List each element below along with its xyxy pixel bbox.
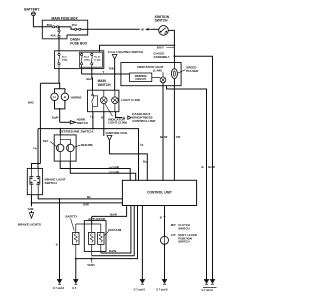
svg-text:SET: SET <box>43 139 49 143</box>
svg-text:H: H <box>53 95 55 99</box>
svg-text:(10A): (10A) <box>62 58 68 61</box>
svg-text:(10A): (10A) <box>84 58 90 61</box>
svg-text:LIGHT (3.0W): LIGHT (3.0W) <box>108 121 127 125</box>
svg-text:H: H <box>64 95 66 99</box>
svg-text:G 7 and 8: G 7 and 8 <box>53 287 65 290</box>
svg-text:Bu/R: Bu/R <box>87 77 94 81</box>
svg-text:SET/RESUME SWITCH: SET/RESUME SWITCH <box>60 129 94 133</box>
svg-text:45A: 45A <box>72 23 78 27</box>
svg-text:B: B <box>160 216 162 220</box>
svg-text:(7.5A): (7.5A) <box>94 58 100 61</box>
svg-text:SWITCH: SWITCH <box>77 121 88 125</box>
svg-text:Bu/W: Bu/W <box>160 135 168 139</box>
svg-text:SAFETY: SAFETY <box>65 215 78 219</box>
svg-text:No.4: No.4 <box>84 56 90 59</box>
svg-text:BU/Y: BU/Y <box>157 46 164 50</box>
svg-text:SWITCH: SWITCH <box>178 226 189 230</box>
svg-text:BRAKE LIGHTS: BRAKE LIGHTS <box>18 223 41 227</box>
svg-text:No.21: No.21 <box>94 57 101 59</box>
svg-text:G 5: G 5 <box>72 287 77 290</box>
svg-text:IGNITION COIL: IGNITION COIL <box>106 131 128 135</box>
svg-text:Br/W: Br/W <box>208 165 215 169</box>
svg-text:CIRCUIT: CIRCUIT <box>135 77 146 81</box>
svg-text:Y/R: Y/R <box>176 135 181 139</box>
svg-text:FUSE BOX: FUSE BOX <box>70 41 88 45</box>
svg-text:PULSER: PULSER <box>186 69 199 73</box>
svg-text:G/W: G/W <box>28 207 34 211</box>
svg-text:From LIGHTING SWITCH: From LIGHTING SWITCH <box>108 50 143 54</box>
svg-text:No.5: No.5 <box>62 57 68 59</box>
svg-text:G 7 and 8: G 7 and 8 <box>134 289 146 292</box>
svg-text:G/W: G/W <box>83 203 89 207</box>
svg-text:B: B <box>56 244 58 247</box>
svg-text:CONTROL UNIT: CONTROL UNIT <box>147 191 172 195</box>
svg-text:LIGHT (1.4W): LIGHT (1.4W) <box>121 98 140 102</box>
svg-text:B: B <box>123 116 125 120</box>
svg-text:Lg/B: Lg/B <box>113 170 119 174</box>
svg-text:CONTROL UNIT: CONTROL UNIT <box>132 119 155 123</box>
svg-text:HORNS: HORNS <box>71 95 82 99</box>
svg-text:SWITCH: SWITCH <box>155 19 168 23</box>
svg-text:SWITCH: SWITCH <box>98 83 111 87</box>
svg-text:Br/W: Br/W <box>110 212 117 216</box>
svg-text:Y: Y <box>102 70 104 74</box>
svg-text:Bu/R: Bu/R <box>52 116 59 120</box>
svg-text:Bu/W: Bu/W <box>109 249 117 253</box>
svg-text:M/T:: M/T: <box>171 223 177 227</box>
svg-text:80A: 80A <box>47 23 53 27</box>
svg-text:G 7 and 8: G 7 and 8 <box>156 289 168 292</box>
svg-text:R/B: R/B <box>109 66 114 70</box>
svg-text:Lg: Lg <box>33 146 37 150</box>
svg-text:(1.4W): (1.4W) <box>153 69 162 73</box>
svg-text:VENT: VENT <box>87 263 95 267</box>
svg-text:W: W <box>141 28 144 32</box>
svg-text:B: B <box>101 115 103 119</box>
svg-text:MAIN FUSE BOX: MAIN FUSE BOX <box>52 16 79 20</box>
svg-text:Bu: Bu <box>143 160 147 164</box>
svg-text:W/G: W/G <box>28 101 35 105</box>
svg-text:B: B <box>202 165 204 169</box>
svg-text:VACUUM: VACUUM <box>108 228 122 232</box>
svg-text:45A: 45A <box>50 34 56 38</box>
svg-text:SWITCH: SWITCH <box>178 240 189 244</box>
svg-text:Lg/B: Lg/B <box>113 165 119 169</box>
svg-text:Lg: Lg <box>140 142 144 146</box>
svg-text:Bk: Bk <box>87 195 91 199</box>
svg-text:DIMMING: DIMMING <box>135 74 147 78</box>
svg-text:BATTERY: BATTERY <box>24 7 40 11</box>
svg-text:G 7 and 8: G 7 and 8 <box>202 289 214 292</box>
svg-text:A/T:: A/T: <box>171 233 176 237</box>
svg-text:ASSEMBLY: ASSEMBLY <box>153 55 169 59</box>
svg-text:RESUME: RESUME <box>81 143 93 147</box>
svg-text:SWITCH: SWITCH <box>45 181 58 185</box>
